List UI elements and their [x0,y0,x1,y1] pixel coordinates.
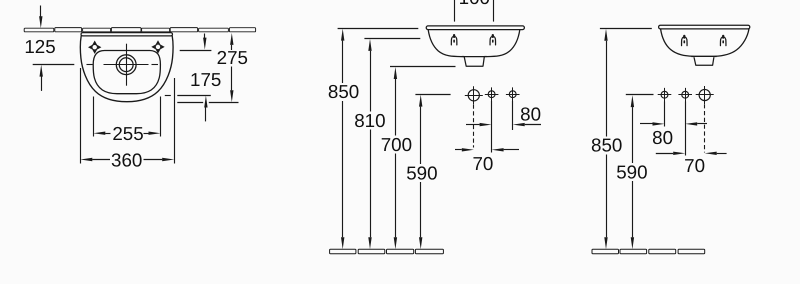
svg-text:175: 175 [190,69,221,90]
svg-text:255: 255 [112,123,143,144]
svg-text:360: 360 [111,149,142,170]
svg-text:80: 80 [652,127,673,148]
svg-text:590: 590 [616,161,647,182]
svg-text:70: 70 [684,155,705,176]
svg-text:100: 100 [459,0,490,8]
svg-text:850: 850 [591,135,622,156]
svg-text:850: 850 [328,81,359,102]
svg-text:700: 700 [381,134,412,155]
svg-text:590: 590 [406,162,437,183]
svg-text:810: 810 [354,110,385,131]
svg-text:125: 125 [24,36,55,57]
svg-text:70: 70 [472,153,493,174]
svg-text:80: 80 [520,103,541,124]
svg-text:275: 275 [217,47,248,68]
